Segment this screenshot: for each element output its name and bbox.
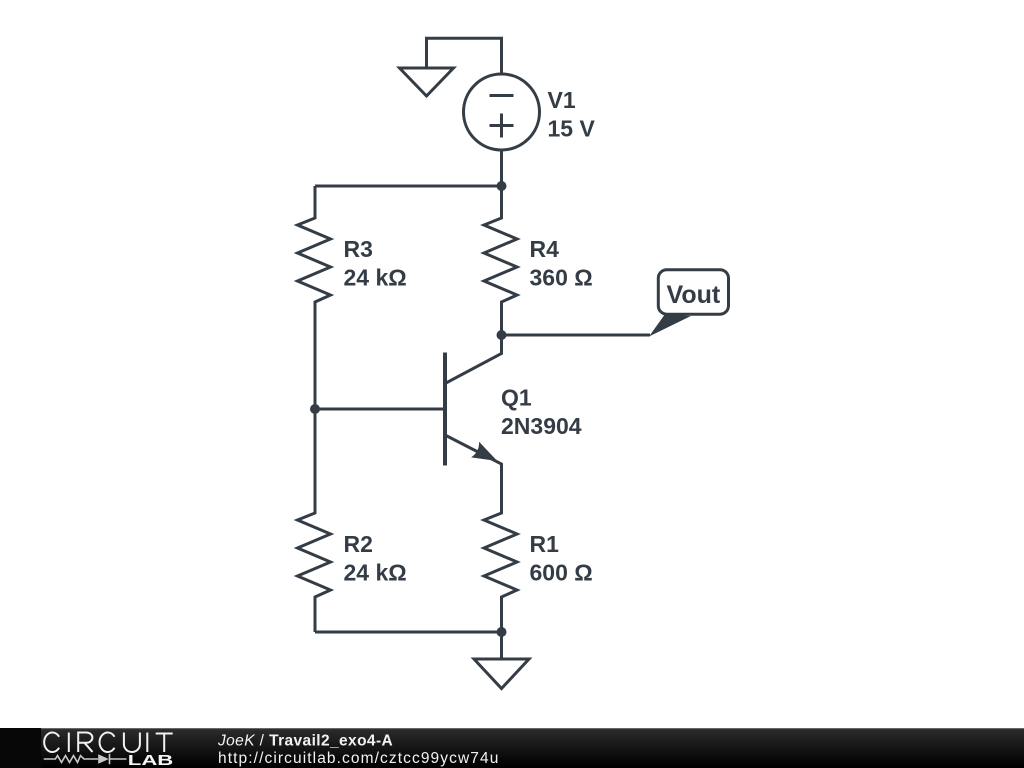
V1 plus sign: [490, 124, 514, 127]
svg-text:360 Ω: 360 Ω: [530, 265, 593, 291]
logo resistor-diode symbol row: [44, 754, 127, 764]
svg-text:15 V: 15 V: [548, 116, 596, 142]
svg-text:24 kΩ: 24 kΩ: [344, 265, 407, 291]
Vout flag tail: [649, 314, 691, 336]
svg-text:R3: R3: [344, 236, 373, 262]
voltage source V1: [464, 74, 540, 150]
junction node ground: [497, 627, 507, 637]
Q1 emitter arrow: [471, 442, 497, 461]
ground (bottom): [474, 632, 529, 689]
resistor R3: [298, 186, 331, 409]
footer bar left black block: [0, 728, 41, 768]
wire: bottom rail: [315, 631, 502, 634]
Q1 base bar: [443, 353, 447, 466]
wire: top rail: [315, 185, 502, 188]
svg-text:2N3904: 2N3904: [501, 413, 582, 439]
junction node collector/Vout: [497, 330, 507, 340]
V1 minus sign: [490, 94, 514, 97]
wire: collector node to Vout flag: [502, 334, 651, 337]
Q1 collector lead: [446, 335, 502, 383]
wire: V1 bottom to VCC node: [500, 150, 503, 187]
svg-text:LAB: LAB: [128, 752, 174, 768]
V1 body circle: [464, 74, 540, 150]
junction node base: [310, 404, 320, 414]
footer bar: [0, 728, 1024, 768]
svg-text:R1: R1: [530, 531, 560, 557]
wire: base: [315, 408, 445, 411]
transistor Q1: [445, 335, 502, 513]
resistor R2: [298, 409, 331, 632]
svg-text:Q1: Q1: [501, 385, 532, 411]
svg-text:600 Ω: 600 Ω: [530, 560, 593, 586]
svg-text:24 kΩ: 24 kΩ: [344, 560, 407, 586]
resistor R1: [484, 464, 517, 632]
ground (top, at V1 negative side): [400, 68, 454, 96]
svg-text:V1: V1: [548, 87, 576, 113]
logo CIRCUIT lettering: [44, 733, 173, 753]
Vout flag box: [658, 270, 728, 315]
svg-text:R4: R4: [530, 236, 560, 262]
wire: V1 top terminal to top-left ground: [427, 38, 502, 74]
resistor R4: [484, 186, 517, 335]
svg-text:JoeK / Travail2_exo4-A: JoeK / Travail2_exo4-A: [217, 732, 393, 749]
junction node VCC: [497, 181, 507, 191]
Q1 emitter lead: [445, 435, 502, 513]
svg-text:http://circuitlab.com/cztcc99y: http://circuitlab.com/cztcc99ycw74u: [218, 750, 499, 767]
svg-text:R2: R2: [344, 531, 373, 557]
svg-text:Vout: Vout: [667, 281, 721, 309]
